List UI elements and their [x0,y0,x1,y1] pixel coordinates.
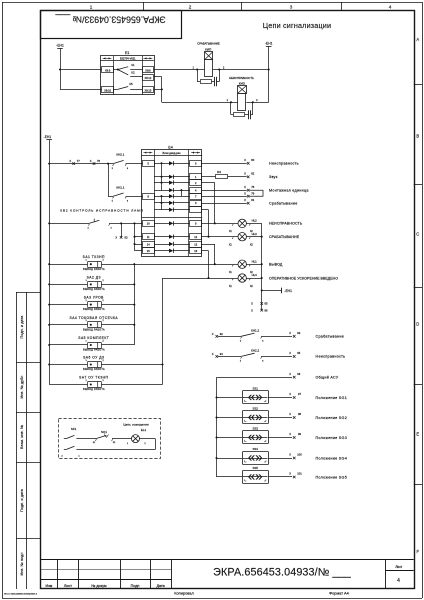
terminal X:79 [244,192,255,198]
node KIP pin2 [218,68,220,70]
node [48,222,50,224]
terminal X:99 [289,432,301,439]
svg-text:92: 92 [220,332,223,336]
svg-text:R3: R3 [217,170,221,174]
terminal E4:10 (left) [143,221,155,227]
wire bus to E4 terminals 11,14,15 [135,223,143,250]
node [215,436,217,438]
terminal X8:8 [143,67,154,73]
svg-text:Положение SG1: Положение SG1 [316,396,348,400]
svg-text:98: 98 [298,412,301,416]
wire HL4 row [233,278,262,280]
position switch SS1 [217,387,293,404]
node [133,324,135,326]
node [48,363,50,365]
RC snubber of KIP: capacitor [215,70,220,87]
svg-text:ЭКРА.656453.04933/№ ___: ЭКРА.656453.04933/№ ___ [213,566,352,578]
diode VD10 in E4 [154,242,190,246]
svg-text:Х: Х [251,308,253,312]
wire fault row to KIO [162,102,238,104]
terminal X:86 [251,308,268,312]
svg-text:ВЫВОД РАБОТА: ВЫВОД РАБОТА [83,368,105,371]
wire anode bus (terminal 5 group) [161,163,163,190]
svg-text:Цепь освещения: Цепь освещения [123,423,149,427]
svg-text:КИП: КИП [205,47,211,51]
svg-text:НЕИСПРАВНОСТЬ: НЕИСПРАВНОСТЬ [269,222,303,226]
svg-text:SA6 ОУ ДЗ: SA6 ОУ ДЗ [83,356,104,360]
position switch SS3 [217,427,293,444]
terminal X:83 [115,223,128,239]
terminal X:80 [244,158,255,165]
svg-text:81: 81 [251,198,254,202]
node [48,263,50,265]
svg-text:SB2 КОНТРОЛЬ ИСПРАВНОСТИ ЛАМП: SB2 КОНТРОЛЬ ИСПРАВНОСТИ ЛАМП [60,209,144,213]
svg-text:HL2: HL2 [252,219,258,223]
lighting circuit enclosure (Цепь освещения) [59,419,161,459]
svg-text:Х: Х [244,185,246,189]
svg-text:F: F [417,549,420,554]
wire KIO pin2 [246,102,268,104]
position switch SS5 [217,466,293,484]
terminal X8:16 [102,87,114,93]
node (branch to terminals 11/14/15) [133,222,135,224]
node [214,222,216,224]
node [48,324,50,326]
power terminal -EH1 (top right) [265,41,273,46]
svg-text:КН1.2: КН1.2 [251,328,259,332]
node (branch to KN1.1) [107,163,109,165]
svg-text:Подп. и дата: Подп. и дата [20,488,24,512]
svg-text:Х: Х [212,332,214,336]
svg-text:D: D [416,322,419,327]
node [215,396,217,398]
svg-text:Х8:8: Х8:8 [145,69,151,73]
svg-text:К1: К1 [131,63,135,67]
indicator KIP (operation) [192,42,224,77]
wire terminal 13 down to HL1 row [202,244,215,264]
wire SA2-SA5 bus [101,264,134,345]
node [261,263,263,265]
terminal E4:4 (right) [190,188,202,194]
svg-text:85: 85 [265,302,268,306]
lamp HL3 [229,232,257,247]
wire X8:12 / X8:15 down to fault row [154,77,162,103]
svg-text:ВЫВОД РАБОТА: ВЫВОД РАБОТА [83,328,105,331]
switch SA4 (ТОКОВАЯ ОТСЕЧКА) [49,316,118,332]
diode VD8 in E4 [154,221,190,225]
terminal X:81 [244,198,255,204]
svg-text:SA7 ОУ ТКЗНП: SA7 ОУ ТКЗНП [79,376,108,380]
svg-text:99: 99 [298,432,301,436]
svg-text:Х: Х [289,331,291,335]
diode VD3 in E4 [154,180,190,184]
node (junction to X8:9) [59,68,61,70]
terminal E4:16 (right) [190,248,202,254]
wire SA1 row to HL1 [101,264,232,266]
wire common ACS row [217,377,293,477]
svg-text:ВЫВОД РАБОТА: ВЫВОД РАБОТА [83,349,105,352]
svg-text:Неисправность: Неисправность [316,355,346,359]
svg-text:Х8:16: Х8:16 [104,89,111,93]
wire cathode link rows 4/7 [181,190,183,196]
terminal E4:3 (right) [190,201,202,207]
node [48,283,50,285]
switch SA7 (ОУ ТКЗНП) [49,376,108,392]
svg-text:Х: Х [90,159,92,163]
svg-text:100: 100 [297,453,302,457]
svg-text:Х8:12: Х8:12 [145,76,152,80]
node [180,189,182,191]
RC snubber of KIO: resistor [231,102,249,116]
wire [60,48,102,89]
svg-text:101: 101 [297,472,302,476]
wire terminal 7 to X:79 [202,196,247,198]
wire terminal 2 down to HL2 row [202,183,215,224]
svg-text:SA4 ТОКОВАЯ ОТСЕЧКА: SA4 ТОКОВАЯ ОТСЕЧКА [70,316,119,320]
svg-text:B: B [416,134,419,139]
svg-text:Е4: Е4 [168,145,172,149]
wire lower cathode to HL3 row [202,210,209,237]
svg-text:«»: «» [248,449,263,464]
resistor R3 [216,170,228,179]
terminal E4:13 (right) [190,242,202,248]
terminal X:82 [244,172,255,179]
svg-text:78: 78 [251,185,254,189]
lamp EL1 [127,428,147,445]
svg-text:НЕИСПРАВНОСТЬ: НЕИСПРАВНОСТЬ [229,76,254,80]
terminal X:85 [251,302,268,306]
svg-text:КИО: КИО [239,81,246,85]
svg-text:ЭКРА.656453.04933/№ ___: ЭКРА.656453.04933/№ ___ [55,14,165,24]
svg-text:SA1 ТКЗНП: SA1 ТКЗНП [83,255,105,259]
terminal E4:15 (left) [143,248,155,254]
svg-text:ОПЕРАТИВНОЕ УСКОРЕНИЕ ВВЕДЕНО: ОПЕРАТИВНОЕ УСКОРЕНИЕ ВВЕДЕНО [269,276,338,280]
svg-text:«»: «» [248,468,263,483]
limit switch SQ1 [93,430,132,444]
svg-text:К2: К2 [131,71,135,75]
wire anode bus (terminal 8 group) [161,196,163,210]
svg-text:Изм: Изм [45,584,52,588]
svg-text:-ЕН1: -ЕН1 [265,41,273,45]
node [48,304,50,306]
svg-text:HL4: HL4 [252,273,258,277]
svg-text:Блок диод-рез: Блок диод-рез [163,151,182,155]
wire jumper X:78 to X:79 [249,190,263,196]
node [160,182,162,184]
contact KN1.1 [112,186,143,203]
lamp HL1 [229,259,257,274]
svg-text:A: A [416,37,419,42]
svg-text:СРАБАТЫВАНИЕ: СРАБАТЫВАНИЕ [269,235,300,239]
node [161,363,163,365]
contact KN1.2 [218,328,292,342]
diode block E4 [142,145,203,256]
node [261,289,263,291]
svg-text:ВЫВОД РАБОТА: ВЫВОД РАБОТА [83,388,105,391]
svg-text:Х: Х [69,159,71,163]
svg-text:80: 80 [251,158,254,162]
terminal X:94 [212,352,224,358]
svg-text:Лист: Лист [395,565,402,569]
svg-text:95: 95 [297,351,300,355]
breaker SF1 [64,427,96,439]
svg-text:86: 86 [265,308,268,312]
svg-text:ВЫВОД РАБОТА: ВЫВОД РАБОТА [83,288,105,291]
svg-text:Взам. инв. №: Взам. инв. № [20,425,24,449]
terminal E4:12 (right) [190,234,202,240]
node [160,202,162,204]
terminal E4:14 (left) [143,242,155,248]
diode VD1 in E4 [154,161,190,165]
node [133,236,135,238]
node [48,163,50,165]
wire to KN1.1 [108,164,113,197]
svg-text:Копировал: Копировал [174,591,194,596]
terminal E4:2 (right) [190,180,202,186]
svg-text:Положение SG3: Положение SG3 [316,436,348,440]
svg-text:Х: Х [289,472,291,476]
svg-text:Х: Х [251,302,253,306]
node [133,304,135,306]
terminal E4:11 (left) [143,234,155,240]
svg-text:-ЕН1: -ЕН1 [44,135,52,139]
terminal E4:5 (left) [143,161,155,167]
svg-text:77: 77 [77,159,80,163]
svg-text:Х8:9: Х8:9 [105,69,111,73]
wire lamp return bus [261,223,263,310]
svg-text:Инв. № дубл: Инв. № дубл [20,376,24,399]
svg-text:96: 96 [297,372,300,376]
switch SA6 (ОУ ДЗ) [49,356,105,372]
svg-text:Х: Х [244,198,246,202]
svg-text:C: C [416,232,419,237]
terminal E4:8 (left) [143,194,155,200]
svg-text:Монтажная единица: Монтажная единица [269,189,309,193]
svg-text:2: 2 [189,4,192,9]
wire terminal 4 to X:78 [202,190,247,192]
svg-text:Х: Х [289,432,291,436]
diode VD9 in E4 [154,235,190,239]
terminal X:97 [289,392,301,399]
wire EL1 return loop [140,439,156,450]
svg-text:-ЕН1: -ЕН1 [284,289,292,293]
terminal E4:terminal (right) [190,207,202,213]
power terminal -EH1 (return) [262,288,292,294]
node [261,277,263,279]
terminal X:78 [244,185,255,192]
svg-text:SA3 УРОВ: SA3 УРОВ [84,296,104,300]
node [133,263,135,265]
svg-text:Звук: Звук [269,175,278,179]
contact KN2.2 [218,349,292,363]
position switch SS2 [217,407,293,424]
node [215,416,217,418]
diode VD7 in E4 [154,208,190,212]
svg-text:4: 4 [397,578,400,584]
svg-text:Б3270Ч-V021: Б3270Ч-V021 [120,58,136,61]
svg-text:Х8:15: Х8:15 [145,89,152,93]
svg-text:Лист: Лист [64,584,72,588]
svg-text:Цепи сигнализации: Цепи сигнализации [263,21,331,30]
RC snubber of KIO: capacitor [249,102,253,119]
node [261,236,263,238]
svg-text:Формат А4: Формат А4 [329,591,349,596]
svg-text:ВЫВОД РАБОТА: ВЫВОД РАБОТА [83,308,105,311]
svg-text:ВЫВОД РАБОТА: ВЫВОД РАБОТА [83,268,105,271]
svg-text:КН1.1: КН1.1 [116,186,124,190]
svg-text:Подп: Подп [131,584,140,588]
svg-text:Х: Х [289,351,291,355]
svg-text:КН2.1: КН2.1 [116,153,124,157]
wire row to KN2.1 [49,163,113,165]
svg-text:Общий АСУ: Общий АСУ [316,376,339,380]
svg-text:Срабатывание: Срабатывание [269,202,298,206]
svg-text:Положение SG4: Положение SG4 [316,456,348,460]
switch SA5 (КОМПЛЕКТ) [49,336,109,352]
contact K5 [113,82,142,89]
svg-text:SA2 ДЗ: SA2 ДЗ [87,275,101,279]
svg-text:Х: Х [244,172,246,176]
position switch SS4 [217,447,293,465]
terminal X:96 [289,372,300,379]
svg-text:К5: К5 [129,82,133,86]
svg-text:Х: Х [212,352,214,356]
lamp HL4 [229,273,257,288]
svg-text:94: 94 [220,352,223,356]
terminal X:98 [289,412,301,419]
svg-text:Х: Х [289,453,291,457]
svg-text:Положение SG2: Положение SG2 [316,416,348,420]
node [207,236,209,238]
wire terminal 16 down to HL4 row [202,251,209,279]
svg-text:SF1: SF1 [71,427,77,431]
node [160,176,162,178]
svg-text:SA5 КОМПЛЕКТ: SA5 КОМПЛЕКТ [78,336,109,340]
node KIP pin1 [196,68,198,70]
svg-text:SQ1: SQ1 [101,430,107,434]
svg-text:HL3: HL3 [252,232,258,236]
switch SA1 (ТКЗНП) [49,255,105,271]
svg-text:Срабатывание: Срабатывание [316,335,345,339]
svg-text:Е1: Е1 [125,51,129,55]
svg-text:1: 1 [90,4,93,9]
terminal X8:9 [102,67,114,73]
svg-text:Подп. и дата: Подп. и дата [20,315,24,339]
svg-text:Ин.п.Перв.примен.копировал.II: Ин.п.Перв.примен.копировал.II [4,594,38,596]
svg-text:93: 93 [297,331,300,335]
switch SA2 (ДЗ) [49,275,105,291]
node KIO pin2 [252,101,254,103]
wire terminal 6 to X:80 [202,163,247,165]
diode VD5 in E4 [154,194,190,198]
wire X8:8 to KIP [154,69,205,71]
svg-text:76: 76 [97,159,100,163]
wire R3 to X:82 [228,176,247,178]
contact K1 [113,63,142,71]
pushbutton SB2 lamp test [49,209,144,230]
node [214,263,216,265]
diode VD11 in E4 [154,249,190,253]
svg-text:-ЕН1: -ЕН1 [56,44,64,48]
node [268,68,270,70]
power terminal -EH1 (left feeder) [44,135,52,140]
node [48,344,50,346]
terminal X:92 [212,332,224,338]
node [133,283,135,285]
svg-text:СРАБАТЫВАНИЕ: СРАБАТЫВАНИЕ [197,42,220,46]
terminal E4:9 (right) [190,221,202,227]
contact K2 [118,70,142,77]
svg-text:97: 97 [298,392,301,396]
terminal E4:1 (right) [190,174,202,180]
terminal E4:6 (right) [190,161,202,167]
wire terminal 3 to X:81 [202,203,247,205]
node KIO pin1 [230,101,232,103]
diode VD4 in E4 [154,188,190,192]
node X8:15 junction [161,88,163,90]
terminal X8:15 [143,87,154,93]
svg-text:Х: Х [289,372,291,376]
lamp HL2 [229,219,257,234]
terminal X:77 [69,159,80,165]
terminal X:101 [289,472,302,479]
wire HL1 row [233,264,262,266]
svg-text:ВЫВОД: ВЫВОД [269,263,283,267]
wire KIP pin2 to -EH1 drop [213,69,269,71]
wire HL2 row [202,223,262,225]
svg-text:Дата: Дата [157,584,166,588]
diode VD6 in E4 [154,201,190,205]
node [215,457,217,459]
switch SA3 (УРОВ) [49,296,105,312]
svg-text:4: 4 [389,4,392,9]
svg-text:«»: «» [248,389,263,404]
terminal X8:12 [143,75,154,81]
wire -EH1 drop [268,46,270,102]
svg-text:«»: «» [248,429,263,444]
svg-text:3: 3 [290,4,293,9]
svg-text:Х: Х [244,192,246,196]
svg-text:E: E [416,432,419,437]
relay output block E1 [100,51,154,95]
RC snubber of KIP: resistor [197,70,214,84]
svg-text:«»: «» [248,409,263,424]
svg-text:№ докум: № докум [91,584,107,588]
terminal X:100 [289,453,302,460]
breaker SF1 lower pole [61,446,155,457]
wire terminal 1 to R3 [202,176,216,178]
power terminal -EH1 (upper left) [56,44,64,49]
svg-text:Х: Х [244,158,246,162]
terminal X:95 [289,351,300,358]
svg-text:82: 82 [251,172,254,176]
svg-text:Х: Х [115,236,117,240]
node [160,162,162,164]
svg-text:EL1: EL1 [141,428,147,432]
svg-text:Х: Х [289,392,291,396]
wire HL3 row [202,236,262,238]
terminal E4:7 (right) [190,194,202,200]
svg-text:Инв. № подл: Инв. № подл [20,552,24,575]
node [160,195,162,197]
indicator KIO (fault) [227,76,258,111]
svg-text:Положение SG5: Положение SG5 [316,475,348,479]
wire left supply bus [49,140,51,385]
node (X:83 branch) [120,222,122,224]
wire SA6/SA7 bus to HL4 row [101,278,232,385]
svg-text:HL1: HL1 [252,259,258,263]
svg-text:Неисправность: Неисправность [269,162,299,166]
